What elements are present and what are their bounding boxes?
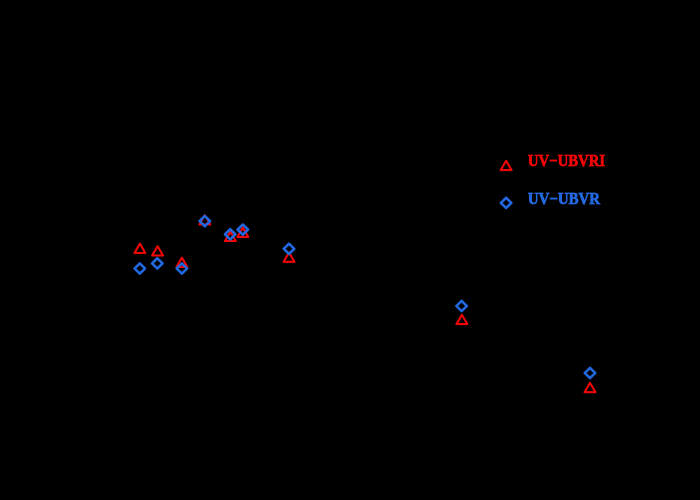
data point pair 7 triangle bbox=[284, 253, 295, 262]
data point pair 2 diamond bbox=[152, 258, 163, 268]
data point pair 4 triangle bbox=[199, 215, 210, 224]
data point pair 3 diamond bbox=[177, 263, 188, 273]
data point pair 4 diamond bbox=[200, 216, 211, 226]
data point pair 3 triangle bbox=[176, 258, 187, 267]
data point pair 6 triangle bbox=[237, 228, 248, 237]
data point pair 8 triangle bbox=[456, 315, 467, 324]
data point pair 9 diamond bbox=[585, 368, 596, 378]
data point pair 5 diamond bbox=[225, 229, 236, 239]
svg-text:UV−UBVRI: UV−UBVRI bbox=[528, 151, 605, 170]
data point pair 1 diamond bbox=[135, 263, 146, 273]
data point pair 6 diamond bbox=[238, 225, 249, 235]
data point pair 7 diamond bbox=[284, 244, 295, 254]
svg-text:UV−UBVR: UV−UBVR bbox=[528, 189, 601, 208]
legend triangle marker bbox=[501, 161, 512, 170]
data point pair 1 triangle bbox=[134, 244, 145, 253]
data point pair 2 triangle bbox=[152, 246, 163, 255]
data point pair 5 triangle bbox=[225, 232, 236, 241]
data point pair 9 triangle bbox=[585, 383, 596, 392]
legend diamond marker bbox=[501, 198, 512, 208]
data point pair 8 diamond bbox=[456, 301, 467, 311]
